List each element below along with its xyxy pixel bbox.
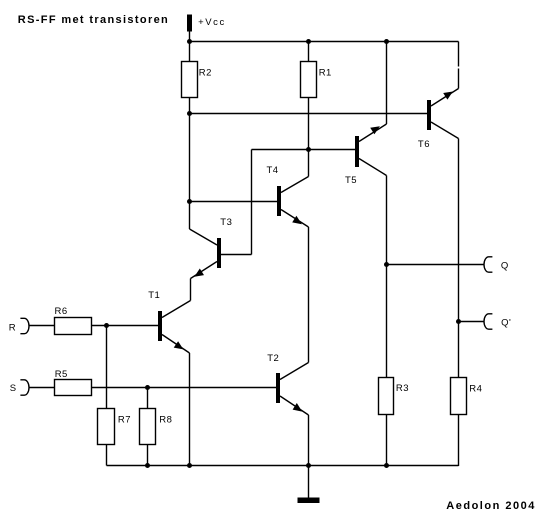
transistor T6 — [427, 100, 431, 130]
resistor R1 — [301, 62, 317, 98]
svg-text:T6: T6 — [418, 139, 430, 150]
wire bottom rail — [107, 465, 459, 467]
resistor R3 — [379, 378, 394, 415]
transistor T1 — [158, 311, 162, 341]
svg-text:R5: R5 — [55, 369, 68, 380]
wire T6 emitter vertical upper — [458, 42, 460, 67]
wire T4 emitter diagonal — [281, 210, 309, 228]
node Vcc-R1 — [306, 39, 311, 44]
wire T5 collector diagonal — [359, 159, 387, 176]
svg-text:R7: R7 — [118, 415, 131, 426]
wire Vcc stub — [189, 32, 191, 42]
svg-text:R6: R6 — [55, 306, 68, 317]
wire R junction down to R7 — [106, 326, 108, 409]
svg-text:+Vcc: +Vcc — [198, 17, 226, 28]
wire top rail — [190, 41, 459, 43]
wire R7 bottom — [106, 445, 108, 466]
wire R2 top — [189, 42, 191, 62]
wire T2 emitter diagonal — [280, 396, 309, 415]
wire R terminal to R6 — [29, 325, 55, 327]
wire Q' output — [459, 321, 485, 323]
node T4 collector — [306, 147, 311, 152]
wire R8 bottom — [147, 445, 149, 466]
wire T3 base horizontal — [221, 254, 252, 256]
node ground junction — [306, 463, 311, 468]
svg-text:R1: R1 — [319, 68, 332, 79]
svg-text:R2: R2 — [199, 68, 212, 79]
wire R1 top — [308, 42, 310, 62]
wire T4 emitter to T2 collector — [308, 227, 310, 363]
resistor R6 — [55, 318, 92, 335]
wire T2 collector diagonal — [280, 363, 309, 380]
wire T4 collector diagonal — [281, 177, 309, 193]
node Q — [384, 262, 389, 267]
terminal Q' — [484, 314, 492, 329]
wire T6 collector vertical — [458, 139, 460, 378]
wire rail to T6 base — [190, 113, 428, 115]
wire T1 collector diagonal — [162, 301, 191, 318]
wire T5 collector vertical — [386, 176, 388, 378]
wire R3 bottom — [386, 415, 388, 466]
node Vcc-T5 — [384, 39, 389, 44]
wire T4 collector vertical — [308, 150, 310, 177]
node Q' — [456, 319, 461, 324]
svg-text:T1: T1 — [148, 290, 160, 301]
wire R4 bottom — [458, 415, 460, 467]
transistor T5 — [355, 136, 359, 167]
svg-text:R8: R8 — [159, 415, 172, 426]
node R2 bottom — [187, 111, 192, 116]
wire R1 bottom — [308, 98, 310, 151]
wire T6 emitter diagonal up — [431, 89, 459, 107]
wire T6 emitter vertical lower — [458, 69, 460, 89]
svg-text:Q': Q' — [501, 318, 511, 329]
wire T1 emitter diagonal — [162, 335, 190, 354]
resistor R7 — [98, 409, 115, 445]
node Vcc-R2 — [187, 39, 192, 44]
node R8 bottom — [145, 463, 150, 468]
node T4 base junction — [187, 199, 192, 204]
wire R8 top — [147, 388, 149, 409]
wire R5 to T2 base — [92, 387, 277, 389]
svg-text:Aedolon 2004: Aedolon 2004 — [446, 500, 536, 512]
resistor R5 — [55, 380, 92, 396]
svg-text:Q: Q — [501, 260, 509, 271]
wire T3 emitter diagonal — [191, 262, 218, 279]
svg-text:RS-FF met transistoren: RS-FF met transistoren — [18, 14, 169, 26]
ground — [308, 466, 310, 498]
resistor R4 — [451, 378, 467, 415]
svg-text:T4: T4 — [267, 165, 279, 176]
svg-text:T5: T5 — [345, 175, 357, 186]
wire R6 to T1 base — [92, 325, 159, 327]
transistor T3 — [217, 238, 221, 268]
transistor T4 — [277, 186, 281, 216]
svg-text:T2: T2 — [267, 353, 279, 364]
node R line junction — [104, 323, 109, 328]
wire T1 emitter vertical — [189, 353, 191, 466]
resistor R2 — [182, 62, 198, 98]
resistor R8 — [140, 409, 156, 445]
terminal Q — [484, 257, 492, 272]
wire T5 emitter diagonal up — [359, 124, 387, 142]
+Vcc power symbol — [187, 15, 192, 32]
wire T3 collector diagonal — [190, 229, 218, 245]
wire T3 base to T5 base — [252, 149, 356, 151]
transistor T2 — [276, 373, 280, 403]
wire T3 base vertical — [251, 150, 253, 255]
node R3 bottom — [384, 463, 389, 468]
wire T4 base — [190, 201, 278, 203]
svg-text:T3: T3 — [220, 217, 232, 228]
node T1 emitter bottom — [187, 463, 192, 468]
wire T3 emitter to T1 collector vertical — [190, 279, 192, 301]
wire T5 emitter vertical to Vcc — [386, 42, 388, 125]
svg-text:R4: R4 — [469, 383, 482, 394]
svg-text:R: R — [9, 323, 16, 334]
node S line junction — [145, 385, 150, 390]
wire left column below R2 — [189, 98, 191, 230]
svg-text:S: S — [10, 383, 17, 394]
svg-text:R3: R3 — [396, 383, 409, 394]
wire T6 collector diagonal — [431, 122, 459, 139]
wire S terminal to R5 — [29, 387, 55, 389]
wire Q output — [387, 264, 485, 266]
wire T2 emitter vertical — [308, 415, 310, 466]
